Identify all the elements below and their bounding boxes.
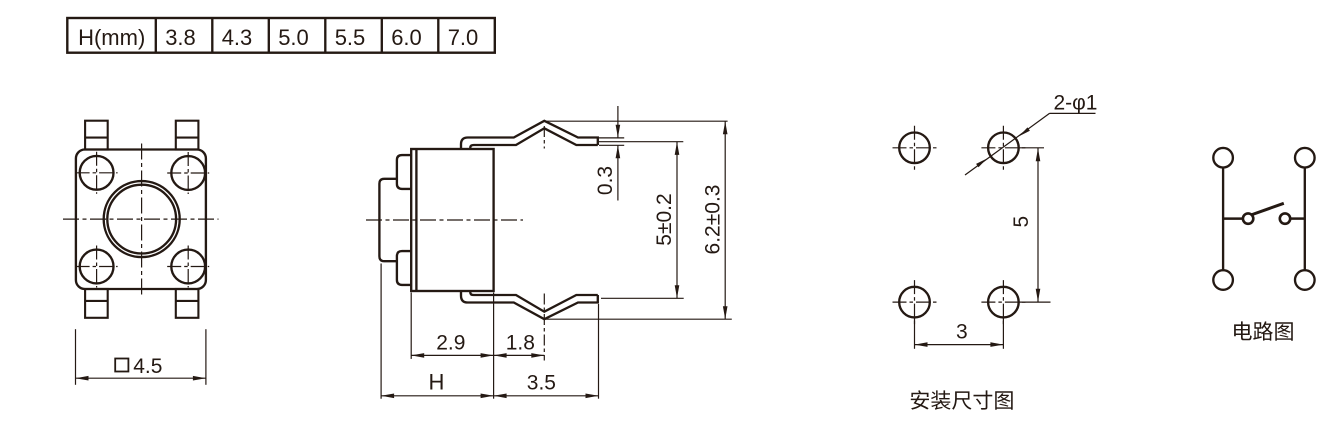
- svg-text:5±0.2: 5±0.2: [653, 193, 676, 245]
- svg-text:6.0: 6.0: [391, 25, 422, 50]
- svg-text:5: 5: [1010, 216, 1033, 228]
- svg-text:5.5: 5.5: [335, 25, 366, 50]
- svg-text:3.8: 3.8: [165, 25, 196, 50]
- svg-text:2-φ1: 2-φ1: [1054, 91, 1098, 114]
- svg-text:1.8: 1.8: [506, 331, 535, 354]
- svg-text:4.5: 4.5: [133, 355, 162, 378]
- svg-text:7.0: 7.0: [448, 25, 479, 50]
- svg-text:4.3: 4.3: [222, 25, 253, 50]
- svg-text:H(mm): H(mm): [78, 25, 145, 50]
- svg-text:0.3: 0.3: [594, 166, 617, 195]
- svg-text:5.0: 5.0: [278, 25, 309, 50]
- svg-text:3: 3: [956, 320, 968, 343]
- svg-text:3.5: 3.5: [527, 371, 556, 394]
- svg-text:6.2±0.3: 6.2±0.3: [702, 185, 725, 255]
- svg-text:2.9: 2.9: [436, 331, 465, 354]
- svg-text:H: H: [429, 369, 445, 394]
